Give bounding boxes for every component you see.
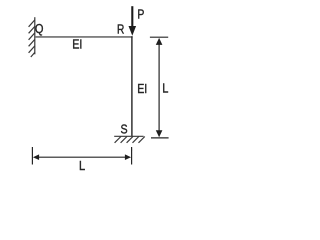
bottom dimension extension tick (left)	[31, 147, 33, 165]
load P arrow	[129, 6, 137, 36]
svg-text:R: R	[117, 22, 124, 36]
column RS (member EI)	[131, 36, 133, 136]
svg-text:EI: EI	[72, 36, 82, 51]
residual mark below S support	[131, 149, 132, 151]
bottom dimension line L with arrows	[33, 154, 131, 160]
svg-text:S: S	[121, 121, 128, 136]
right dimension line L with arrows	[156, 38, 163, 137]
fixed support ground at S	[114, 136, 145, 143]
right dimension extension tick (top)	[150, 36, 168, 38]
svg-text:EI: EI	[137, 81, 147, 96]
svg-text:Q: Q	[35, 21, 44, 36]
bottom dimension extension tick (right)	[131, 147, 133, 165]
svg-text:P: P	[137, 8, 144, 22]
svg-text:L: L	[162, 81, 168, 96]
beam QR (member EI)	[35, 36, 133, 38]
right dimension extension tick (bottom)	[151, 137, 169, 139]
fixed support wall at Q	[29, 17, 35, 57]
svg-text:L: L	[79, 158, 85, 173]
